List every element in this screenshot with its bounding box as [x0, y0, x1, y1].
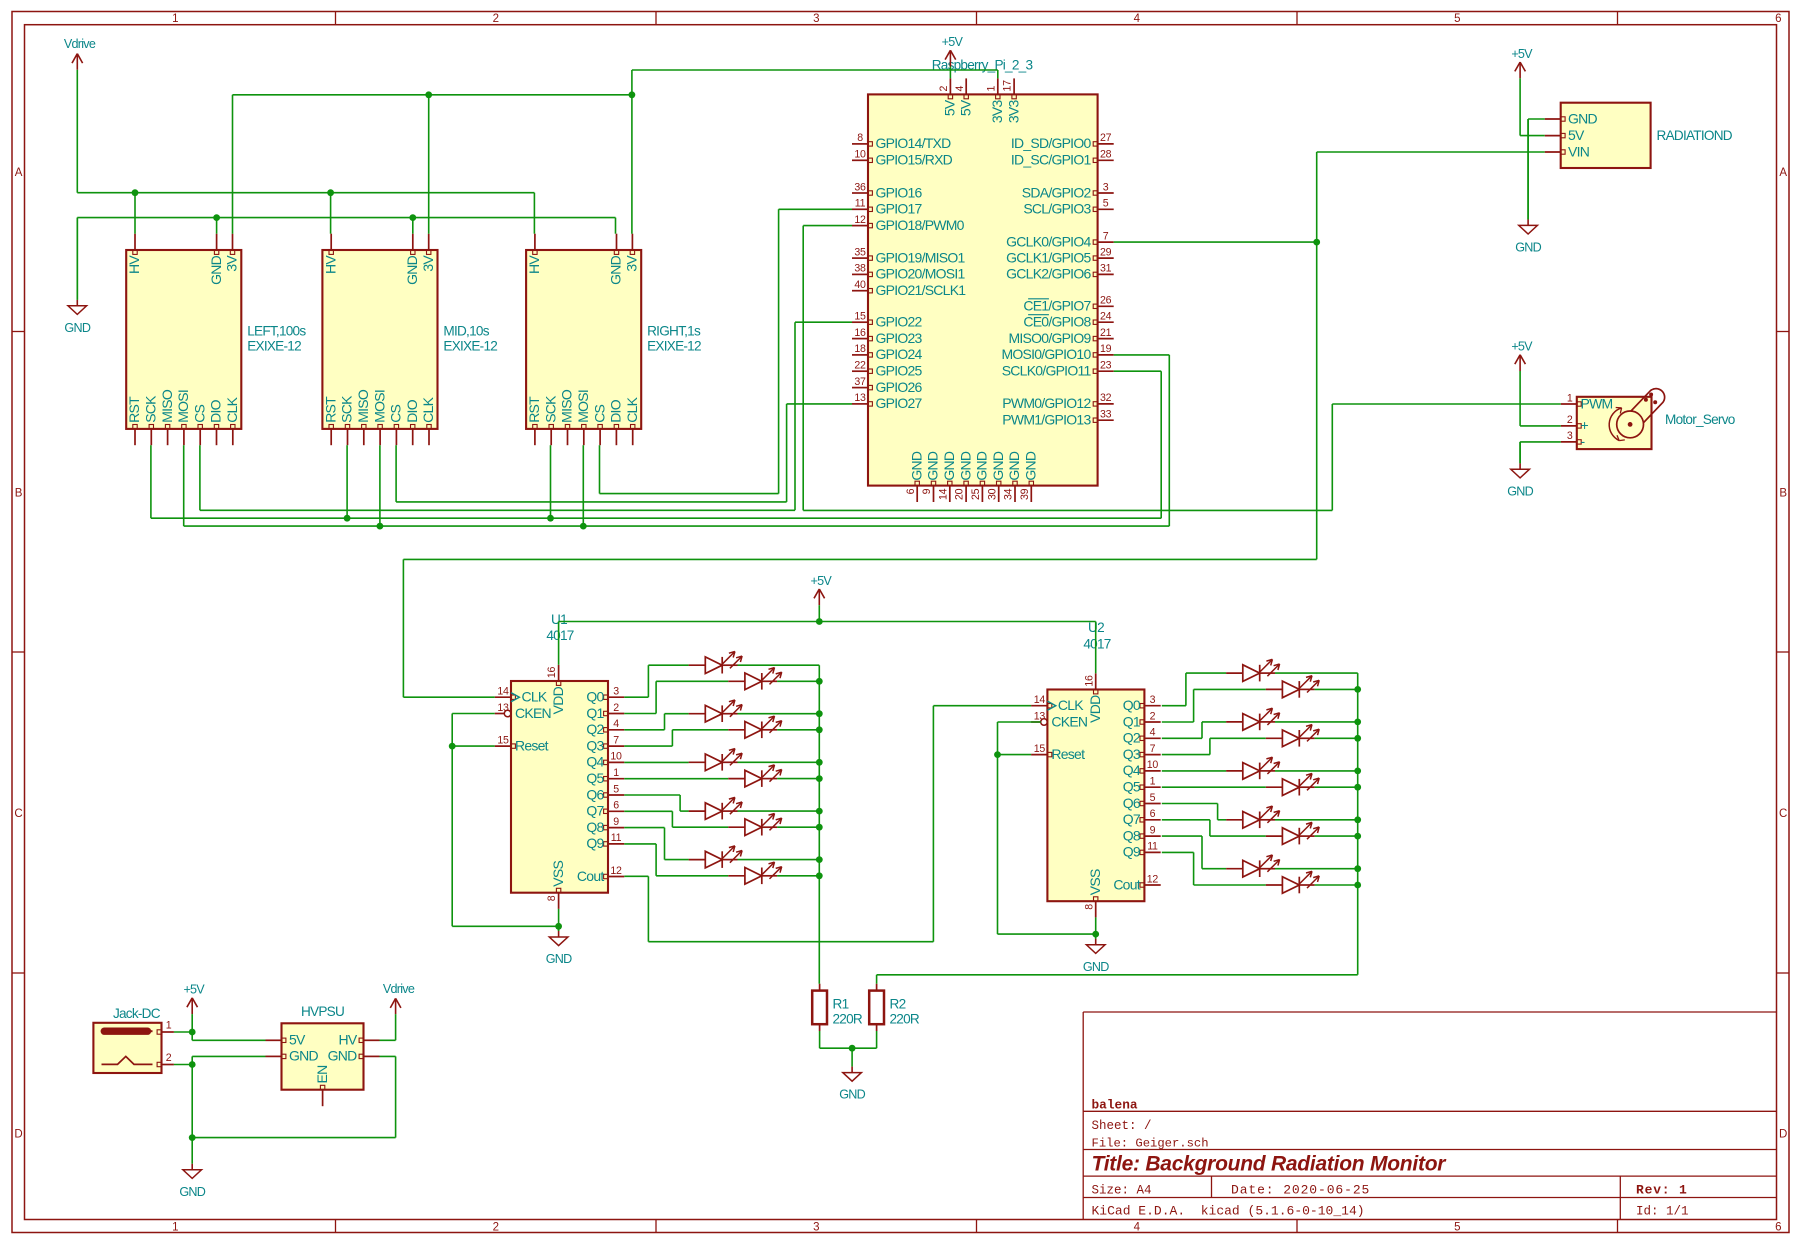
pin 15 Reset U2 [1031, 754, 1047, 756]
svg-text:GND: GND [328, 1048, 358, 1064]
svg-text:Reset: Reset [515, 737, 549, 753]
svg-text:5: 5 [1454, 1222, 1460, 1234]
wire U2 Q4 to LED [1162, 770, 1226, 772]
junction MID HV [327, 189, 334, 196]
svg-text:2: 2 [1150, 710, 1156, 722]
svg-text:PWM: PWM [1581, 395, 1613, 411]
power +5V (radiation detector) [1519, 62, 1521, 78]
svg-text:R1: R1 [833, 997, 849, 1012]
pin HV HVPSU (right) [364, 1039, 380, 1041]
svg-text:9: 9 [921, 488, 933, 494]
LED D20 (bank2 right col) [1266, 884, 1283, 886]
wire RIGHT HV drop [533, 193, 535, 234]
svg-text:MISO: MISO [355, 389, 371, 423]
pin 11 Q9 U2 [1144, 851, 1160, 853]
pin 3 Q0 U1 [608, 696, 624, 698]
svg-text:GPIO17: GPIO17 [876, 201, 923, 217]
pin RST MID (bottom) [330, 429, 332, 445]
svg-text:3V: 3V [420, 255, 436, 272]
EXIXE-12 MID box [322, 250, 437, 429]
wire LEFT 3V drop [232, 95, 234, 234]
svg-text:37: 37 [854, 376, 866, 388]
svg-text:+5V: +5V [811, 574, 833, 588]
svg-text:13: 13 [1034, 710, 1046, 722]
svg-text:9: 9 [1150, 824, 1156, 836]
svg-text:GND: GND [941, 451, 957, 481]
svg-text:8: 8 [857, 132, 863, 144]
junction bank1 cathode y827 [816, 824, 823, 831]
wire U1 Q4 to LED [624, 761, 688, 763]
svg-text:6: 6 [1775, 13, 1781, 25]
svg-text:39: 39 [1019, 488, 1031, 500]
wire HVPSU GND jog [191, 1056, 193, 1064]
pin SCK MID (bottom) [347, 429, 349, 445]
svg-text:Size: A4: Size: A4 [1092, 1184, 1152, 1198]
svg-text:Cout: Cout [1113, 876, 1140, 892]
svg-text:2: 2 [1567, 414, 1573, 426]
svg-text:5: 5 [1150, 792, 1156, 804]
pin 1 PWM Motor_Servo [1561, 403, 1577, 405]
pin 12 Cout U1 [608, 876, 624, 878]
wire U1 Cout drop [647, 876, 649, 941]
svg-text:DIO: DIO [608, 399, 624, 423]
pin MISO LEFT (bottom) [167, 429, 169, 445]
junction RIGHT SCK [547, 515, 554, 522]
LED D16 (bank2 right col) [1266, 786, 1283, 788]
svg-text:22: 22 [854, 360, 866, 372]
pin 3 SDA/GPIO2 [1098, 192, 1114, 194]
svg-text:32: 32 [1100, 392, 1112, 404]
svg-text:GPIO14/TXD: GPIO14/TXD [876, 135, 952, 151]
svg-text:3V: 3V [224, 255, 240, 272]
pin 28 ID_SC/GPIO1 [1098, 159, 1114, 161]
pin 38 GPIO20/MOSI1 [852, 273, 868, 275]
wire R1 bottom [819, 1031, 821, 1048]
LED D12 (bank2 right col) [1266, 688, 1283, 690]
junction bank1 cathode y778 [816, 775, 823, 782]
pin 37 GPIO26 [852, 387, 868, 389]
svg-text:Q6: Q6 [1123, 795, 1141, 811]
svg-text:GPIO16: GPIO16 [876, 184, 923, 200]
wire U1 reset vertical [451, 714, 453, 927]
svg-text:25: 25 [970, 488, 982, 500]
svg-text:DIO: DIO [404, 399, 420, 423]
svg-text:Id: 1/1: Id: 1/1 [1636, 1205, 1689, 1219]
wire RIGHT CS bus [600, 493, 779, 495]
svg-text:+5V: +5V [1511, 47, 1533, 61]
svg-text:15: 15 [1034, 743, 1046, 755]
svg-text:11: 11 [855, 198, 866, 210]
wire U2 Q3 to LED [1162, 754, 1210, 756]
pin 2 Q1 U1 [608, 713, 624, 715]
svg-text:GND: GND [1083, 960, 1109, 974]
svg-text:RADIATIOND: RADIATIOND [1657, 128, 1733, 143]
pin 4 Q2 U1 [608, 729, 624, 731]
svg-text:4: 4 [613, 718, 619, 730]
wire U2 Reset link [998, 754, 1032, 756]
svg-text:33: 33 [1100, 409, 1112, 421]
svg-text:CLK: CLK [522, 689, 548, 705]
svg-text:ID_SC/GPIO1: ID_SC/GPIO1 [1011, 152, 1092, 168]
pin 16 VDD U2 [1095, 673, 1097, 689]
wire HVPSU 5V link [192, 1039, 265, 1041]
svg-text:Q9: Q9 [586, 835, 604, 851]
pin MISO MID (bottom) [363, 429, 365, 445]
wire U2 VSS drop [1095, 917, 1097, 938]
Motor_Servo box [1577, 397, 1652, 449]
wire U1 clock drop [402, 559, 404, 697]
svg-text:GPIO15/RXD: GPIO15/RXD [876, 152, 953, 168]
pin 40 GPIO21/SCLK1 [852, 290, 868, 292]
barrel jack tip contact [102, 1056, 153, 1064]
svg-text:File: Geiger.sch: File: Geiger.sch [1092, 1137, 1209, 1151]
junction bank2 cathode y885 [1354, 882, 1361, 889]
wire radiation 5V link [1520, 135, 1545, 137]
wire GPIO22 riser [794, 322, 796, 510]
junction bank2 cathode y787 [1354, 784, 1361, 791]
svg-text:VSS: VSS [1087, 869, 1103, 895]
svg-text:CLK: CLK [624, 396, 640, 422]
wire jack pin1 link [174, 1031, 192, 1033]
svg-text:5: 5 [1103, 198, 1109, 210]
svg-text:19: 19 [1100, 343, 1112, 355]
wire LEFT HV drop [134, 193, 136, 234]
pin 17 3V3 (top) [1013, 78, 1015, 94]
svg-text:KiCad E.D.A. kicad (5.1.6-0-1: KiCad E.D.A. kicad (5.1.6-0-10_14) [1092, 1204, 1365, 1219]
svg-text:R2: R2 [890, 997, 906, 1012]
pin CS RIGHT (bottom) [599, 429, 601, 445]
wire GCLK0 link [1114, 241, 1317, 243]
svg-text:2: 2 [166, 1052, 172, 1064]
svg-text:3: 3 [613, 686, 619, 698]
svg-text:GPIO20/MOSI1: GPIO20/MOSI1 [876, 266, 966, 282]
pin 13 GPIO27 [852, 403, 868, 405]
svg-text:6: 6 [905, 488, 917, 494]
wire U1 LED row 7 cathode [777, 826, 819, 828]
svg-text:5: 5 [613, 783, 619, 795]
Raspberry Pi U? box [868, 94, 1098, 485]
svg-text:Cout: Cout [577, 868, 604, 884]
pin SCK RIGHT (bottom) [550, 429, 552, 445]
servo motor glyph [1624, 389, 1665, 431]
svg-text:1: 1 [613, 767, 619, 779]
svg-text:LEFT,100s: LEFT,100s [247, 324, 306, 339]
LED D11 (bank2 left col) [1226, 672, 1243, 674]
wire U2 LED row 0 cathode [1275, 672, 1358, 674]
junction bank2 cathode y770 [1354, 768, 1361, 775]
junction +5V rail [816, 618, 823, 625]
svg-text:GND: GND [64, 321, 90, 335]
pin SCK LEFT (bottom) [150, 429, 152, 445]
ground (jack) [191, 1138, 193, 1164]
svg-text:1: 1 [166, 1019, 172, 1031]
pin 26 CE1/GPIO7 [1098, 305, 1114, 307]
wire MID SCK drop [346, 445, 348, 518]
junction LEFT GND [213, 214, 220, 221]
LED D17 (bank2 left col) [1226, 819, 1243, 821]
wire U1 Q9 to LED [624, 843, 656, 845]
svg-text:14: 14 [937, 488, 949, 500]
svg-text:4017: 4017 [1083, 637, 1110, 652]
svg-text:20: 20 [954, 488, 966, 500]
wire U1 VSS link [452, 925, 558, 927]
svg-text:8: 8 [546, 895, 558, 901]
wire U1 LED row 2 cathode [738, 713, 820, 715]
LED D18 (bank2 right col) [1266, 835, 1283, 837]
pin MOSI RIGHT (bottom) [583, 429, 585, 445]
LED D8 (bank1 right col) [728, 826, 745, 828]
svg-text:Q8: Q8 [586, 819, 604, 835]
LED D13 (bank2 left col) [1226, 721, 1243, 723]
pin 36 GPIO16 [852, 192, 868, 194]
junction jack gnd [189, 1134, 196, 1141]
power +5V (LED rail) [818, 589, 820, 605]
svg-text:CE0/GPIO8: CE0/GPIO8 [1023, 314, 1091, 330]
svg-text:GCLK2/GPIO6: GCLK2/GPIO6 [1006, 266, 1091, 282]
svg-text:3: 3 [1103, 181, 1109, 193]
wire U1 clock riser [1316, 242, 1318, 559]
pin 1 3V3 (top) [997, 78, 999, 94]
svg-text:C: C [14, 808, 22, 820]
wire U1 LED row 8 cathode [738, 859, 820, 861]
svg-text:GND: GND [608, 255, 624, 285]
wire U1 LED row 0 cathode [738, 664, 820, 666]
svg-text:GND: GND [957, 451, 973, 481]
pin 3V RIGHT (top) [631, 234, 633, 250]
wire U2 LED row 3 cathode [1315, 737, 1358, 739]
pin 2 5V (top) [949, 78, 951, 94]
wire U2 CLK riser [932, 706, 934, 942]
svg-text:11: 11 [611, 832, 622, 844]
svg-text:MOSI: MOSI [575, 390, 591, 423]
junction bank2 cathode y689 [1354, 686, 1361, 693]
svg-text:3V3: 3V3 [1005, 100, 1021, 124]
svg-text:23: 23 [1100, 360, 1112, 372]
svg-text:2: 2 [493, 1222, 499, 1234]
svg-text:GPIO25: GPIO25 [876, 363, 923, 379]
pin 32 PWM0/GPIO12 [1098, 403, 1114, 405]
pin MISO RIGHT (bottom) [567, 429, 569, 445]
pin 5V RADIATIOND [1545, 135, 1561, 137]
pin CLK RIGHT (bottom) [632, 429, 634, 445]
pin CS MID (bottom) [395, 429, 397, 445]
svg-text:GCLK0/GPIO4: GCLK0/GPIO4 [1006, 233, 1091, 249]
svg-text:HVPSU: HVPSU [301, 1004, 344, 1019]
pin 2 Jack-DC [162, 1064, 174, 1066]
junction bank1 cathode y713 [816, 710, 823, 717]
pin 5 SCL/GPIO3 [1098, 208, 1114, 210]
wire U1 Q2 to LED [624, 729, 664, 731]
svg-text:27: 27 [1100, 132, 1112, 144]
wire MID MOSI drop [379, 445, 381, 526]
svg-text:4: 4 [1150, 727, 1156, 739]
svg-text:GPIO26: GPIO26 [876, 379, 923, 395]
wire +5V raspberry [949, 67, 951, 79]
wire U1 Cout jog [624, 875, 648, 877]
svg-text:1: 1 [1150, 776, 1156, 788]
svg-text:Q3: Q3 [586, 737, 604, 753]
junction MID SCK [344, 515, 351, 522]
svg-text:HV: HV [526, 255, 542, 274]
pin 4 5V (top) [965, 78, 967, 94]
pin 7 Q3 U2 [1144, 754, 1160, 756]
svg-text:GCLK1/GPIO5: GCLK1/GPIO5 [1006, 249, 1091, 265]
svg-text:SCK: SCK [143, 395, 159, 423]
pin 9 GND (bottom) [933, 486, 935, 502]
wire LEFT CS bus [200, 509, 795, 511]
wire U2 Q8 to LED [1162, 835, 1202, 837]
svg-text:GND: GND [208, 255, 224, 285]
svg-text:5V: 5V [1568, 127, 1585, 143]
svg-text:CS: CS [388, 404, 404, 422]
svg-text:34: 34 [1003, 488, 1015, 500]
svg-text:B: B [1779, 488, 1787, 500]
svg-text:40: 40 [854, 279, 866, 291]
svg-text:MISO: MISO [559, 389, 575, 423]
wire GPIO27 riser [786, 404, 788, 502]
pin 31 GCLK2/GPIO6 [1098, 273, 1114, 275]
wire servo GND drop [1519, 442, 1521, 463]
wire U2 Q2 to LED [1162, 737, 1202, 739]
svg-text:17: 17 [1002, 80, 1014, 92]
pin CLK LEFT (bottom) [232, 429, 234, 445]
ground (U2) [1095, 934, 1097, 939]
svg-text:12: 12 [610, 865, 622, 877]
pin HV MID (top) [330, 234, 332, 250]
Jack-DC box [93, 1023, 161, 1073]
svg-text:Q6: Q6 [586, 786, 604, 802]
svg-text:7: 7 [1103, 230, 1109, 242]
svg-text:CE1/GPIO7: CE1/GPIO7 [1023, 298, 1091, 314]
svg-text:Date: 2020-06-25: Date: 2020-06-25 [1231, 1183, 1370, 1198]
LED D15 (bank2 left col) [1226, 770, 1243, 772]
junction U2 reset [994, 751, 1001, 758]
wire 3V3 riser [631, 70, 633, 95]
wire jack GND drop [191, 1065, 193, 1138]
wire U2 LED row 1 cathode [1315, 688, 1358, 690]
wire U2 VSS link [998, 933, 1096, 935]
svg-text:HV: HV [126, 255, 142, 274]
wire U2 CKEN link [998, 721, 1041, 723]
wire U2 Q9 to LED [1162, 851, 1194, 853]
pin 5V HVPSU (left) [266, 1039, 282, 1041]
pin 1 Jack-DC [162, 1031, 174, 1033]
svg-text:11: 11 [1147, 841, 1158, 853]
junction RIGHT 3V [629, 91, 636, 98]
wire LEFT SCK drop [150, 445, 152, 518]
junction jack pin2 [189, 1061, 196, 1068]
junction bank1 cathode y762 [816, 759, 823, 766]
ground (U1) [558, 926, 560, 931]
svg-text:Jack-DC: Jack-DC [113, 1006, 161, 1021]
svg-text:Motor_Servo: Motor_Servo [1665, 412, 1735, 427]
wire HVPSU Vdrive riser [395, 1014, 397, 1040]
svg-text:29: 29 [1100, 246, 1112, 258]
resistor R1 [819, 984, 821, 991]
pin 7 GCLK0/GPIO4 [1098, 241, 1114, 243]
wire U2 LED row 7 cathode [1315, 835, 1358, 837]
svg-text:18: 18 [854, 343, 866, 355]
wire U2 CLK link [933, 705, 1031, 707]
pin GND RADIATIOND [1545, 118, 1561, 120]
pin CS LEFT (bottom) [199, 429, 201, 445]
pin 7 Q3 U1 [608, 745, 624, 747]
wire U2 Q5 to LED [1162, 786, 1266, 788]
pin 6 Q7 U2 [1144, 819, 1160, 821]
svg-text:3: 3 [813, 13, 819, 25]
svg-text:GND: GND [908, 451, 924, 481]
svg-text:6: 6 [613, 800, 619, 812]
pin GND HVPSU (left) [266, 1055, 282, 1057]
wire GND rail [77, 217, 615, 219]
svg-text:PWM1/GPIO13: PWM1/GPIO13 [1002, 412, 1091, 428]
wire U1 CKEN link [452, 713, 495, 715]
svg-text:Reset: Reset [1051, 746, 1085, 762]
wire GPIO17 riser [778, 209, 780, 493]
svg-text:12: 12 [1147, 873, 1159, 885]
svg-text:9: 9 [613, 816, 619, 828]
svg-text:Q8: Q8 [1123, 827, 1141, 843]
pin 10 Q4 U2 [1144, 770, 1160, 772]
svg-text:CS: CS [591, 404, 607, 422]
wire U1 LED row 9 cathode [777, 875, 819, 877]
ground (R1 R2) [851, 1048, 853, 1066]
svg-text:Q5: Q5 [586, 770, 604, 786]
wire U1 Q0 to LED [624, 696, 648, 698]
junction bank2 cathode y819 [1354, 816, 1361, 823]
pin 24 CE0/GPIO8 [1098, 321, 1114, 323]
pin 1 Q5 U2 [1144, 786, 1160, 788]
svg-text:GND: GND [546, 952, 572, 966]
wire GPIO22 link [795, 321, 852, 323]
wire MOSI0 riser [1168, 355, 1170, 526]
wire U2 Q7 to LED [1162, 819, 1210, 821]
pin 8 GPIO14/TXD [852, 143, 868, 145]
svg-text:GND: GND [289, 1048, 319, 1064]
junction bank2 cathode y868 [1354, 865, 1361, 872]
svg-text:C: C [1779, 808, 1787, 820]
svg-text:EN: EN [314, 1066, 330, 1084]
LED D9 (bank1 left col) [689, 859, 706, 861]
wire Vdrive rail [77, 192, 534, 194]
wire 3V3 pin drop [997, 70, 999, 78]
svg-text:3V3: 3V3 [989, 100, 1005, 124]
wire HVPSU right GND riser [395, 1056, 397, 1137]
wire U1 Reset link [452, 745, 495, 747]
EXIXE-12 RIGHT box [526, 250, 641, 429]
junction R1 R2 gnd [849, 1045, 856, 1052]
pin 11 Q9 U1 [608, 843, 624, 845]
svg-text:Q7: Q7 [586, 803, 604, 819]
svg-text:8: 8 [1083, 904, 1095, 910]
svg-text:MOSI0/GPIO10: MOSI0/GPIO10 [1001, 346, 1091, 362]
svg-text:MISO0/GPIO9: MISO0/GPIO9 [1009, 330, 1092, 346]
junction bank2 cathode y721 [1354, 719, 1361, 726]
wire SCLK0 link [1114, 370, 1162, 372]
pin 2 Q1 U2 [1144, 721, 1160, 723]
svg-text:CKEN: CKEN [1051, 713, 1087, 729]
svg-text:36: 36 [854, 181, 866, 193]
wire U1 LED row 5 cathode [777, 778, 819, 780]
junction MID GND [409, 214, 416, 221]
svg-text:CS: CS [191, 404, 207, 422]
svg-text:D: D [14, 1129, 22, 1141]
wire bank2 cathode return [877, 974, 1358, 976]
pin 8 VSS U2 [1095, 901, 1097, 917]
svg-text:38: 38 [854, 263, 866, 275]
junction U1 reset [449, 743, 456, 750]
svg-text:SCLK0/GPIO11: SCLK0/GPIO11 [1002, 363, 1092, 379]
